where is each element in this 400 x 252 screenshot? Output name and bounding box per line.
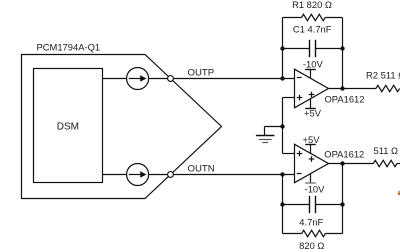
- svg-text:511 Ω: 511 Ω: [374, 145, 399, 156]
- wire feedback left vertical (U1): [282, 18, 284, 79]
- resistor R1: [283, 14, 343, 20]
- wire U2 output to R3: [329, 163, 374, 165]
- svg-text:DSM: DSM: [57, 122, 79, 133]
- svg-text:OUTN: OUTN: [188, 163, 215, 174]
- svg-text:OPA1612: OPA1612: [324, 148, 364, 159]
- wire OUTP from current source to op-amp U1 inverting input: [149, 78, 295, 80]
- wire U1 output to R2: [329, 88, 376, 90]
- svg-text:R2 511 Ω: R2 511 Ω: [366, 70, 400, 81]
- wire feedback right vertical (U2): [342, 164, 344, 234]
- junction U2 output: [340, 161, 344, 165]
- junction U1 output: [340, 86, 344, 90]
- svg-text:OUTP: OUTP: [188, 68, 215, 79]
- junction C2 left: [280, 202, 284, 206]
- wire OUTN from DSM to current source: [103, 174, 127, 176]
- U1 positive supply marker: [309, 92, 315, 98]
- junction C1 left: [280, 46, 284, 50]
- svg-text:+5V: +5V: [303, 134, 321, 145]
- U1 negative supply pin: [305, 70, 316, 79]
- svg-text:OPA1612: OPA1612: [325, 93, 365, 104]
- junction OUTP feedback tap: [280, 76, 284, 80]
- U2 positive supply pin: [305, 145, 316, 154]
- current source I2: [127, 164, 149, 186]
- node OUTP terminal circle: [168, 76, 174, 82]
- svg-text:-10V: -10V: [305, 184, 326, 195]
- wire OUTN from current source to op-amp U2 inverting input: [149, 174, 295, 176]
- U2 negative supply pin: [305, 173, 316, 183]
- U2 plus input marker: [297, 151, 303, 157]
- IC block PCM1794A-Q1 outline: [22, 55, 222, 199]
- U1 positive supply pin: [305, 98, 316, 108]
- resistor R4 820: [283, 230, 343, 236]
- svg-text:PCM1794A-Q1: PCM1794A-Q1: [37, 41, 101, 52]
- artifact colored mark at right edge: [398, 191, 400, 195]
- ground: [256, 136, 275, 143]
- U1 plus input marker: [297, 95, 303, 101]
- svg-text:4.7nF: 4.7nF: [299, 216, 323, 227]
- wire OUTP from DSM to current source: [103, 78, 127, 80]
- wire feedback right vertical (U1): [342, 18, 344, 89]
- wire OUTN feedback left vertical (U2): [282, 175, 284, 234]
- resistor R3 511: [373, 160, 400, 166]
- DSM block: [34, 69, 103, 183]
- current source I1: [127, 68, 149, 90]
- junction C2 right: [340, 202, 344, 206]
- op-amp U2 OPA1612 triangle: [295, 144, 329, 182]
- wire to ground: [265, 127, 283, 136]
- svg-text:+5V: +5V: [304, 107, 322, 118]
- U2 minus input marker: [297, 173, 302, 175]
- svg-text:R1 820 Ω: R1 820 Ω: [292, 0, 332, 10]
- svg-text:C1 4.7nF: C1 4.7nF: [293, 23, 332, 34]
- op-amp U1 OPA1612 triangle: [295, 69, 329, 108]
- capacitor C2 4.7nF: [283, 196, 343, 213]
- U2 positive supply marker: [309, 156, 315, 162]
- resistor R2: [376, 85, 400, 91]
- node OUTN terminal circle: [168, 172, 174, 178]
- svg-text:-10V: -10V: [303, 59, 324, 70]
- junction OUTN feedback tap: [280, 172, 284, 176]
- junction C1 right: [340, 46, 344, 50]
- wire non-inverting input bus (U1 plus to U2 plus): [283, 98, 295, 154]
- U1 minus input marker: [297, 77, 302, 79]
- svg-text:820 Ω: 820 Ω: [299, 240, 324, 251]
- junction ground tap: [280, 124, 284, 128]
- capacitor C1: [283, 40, 343, 57]
